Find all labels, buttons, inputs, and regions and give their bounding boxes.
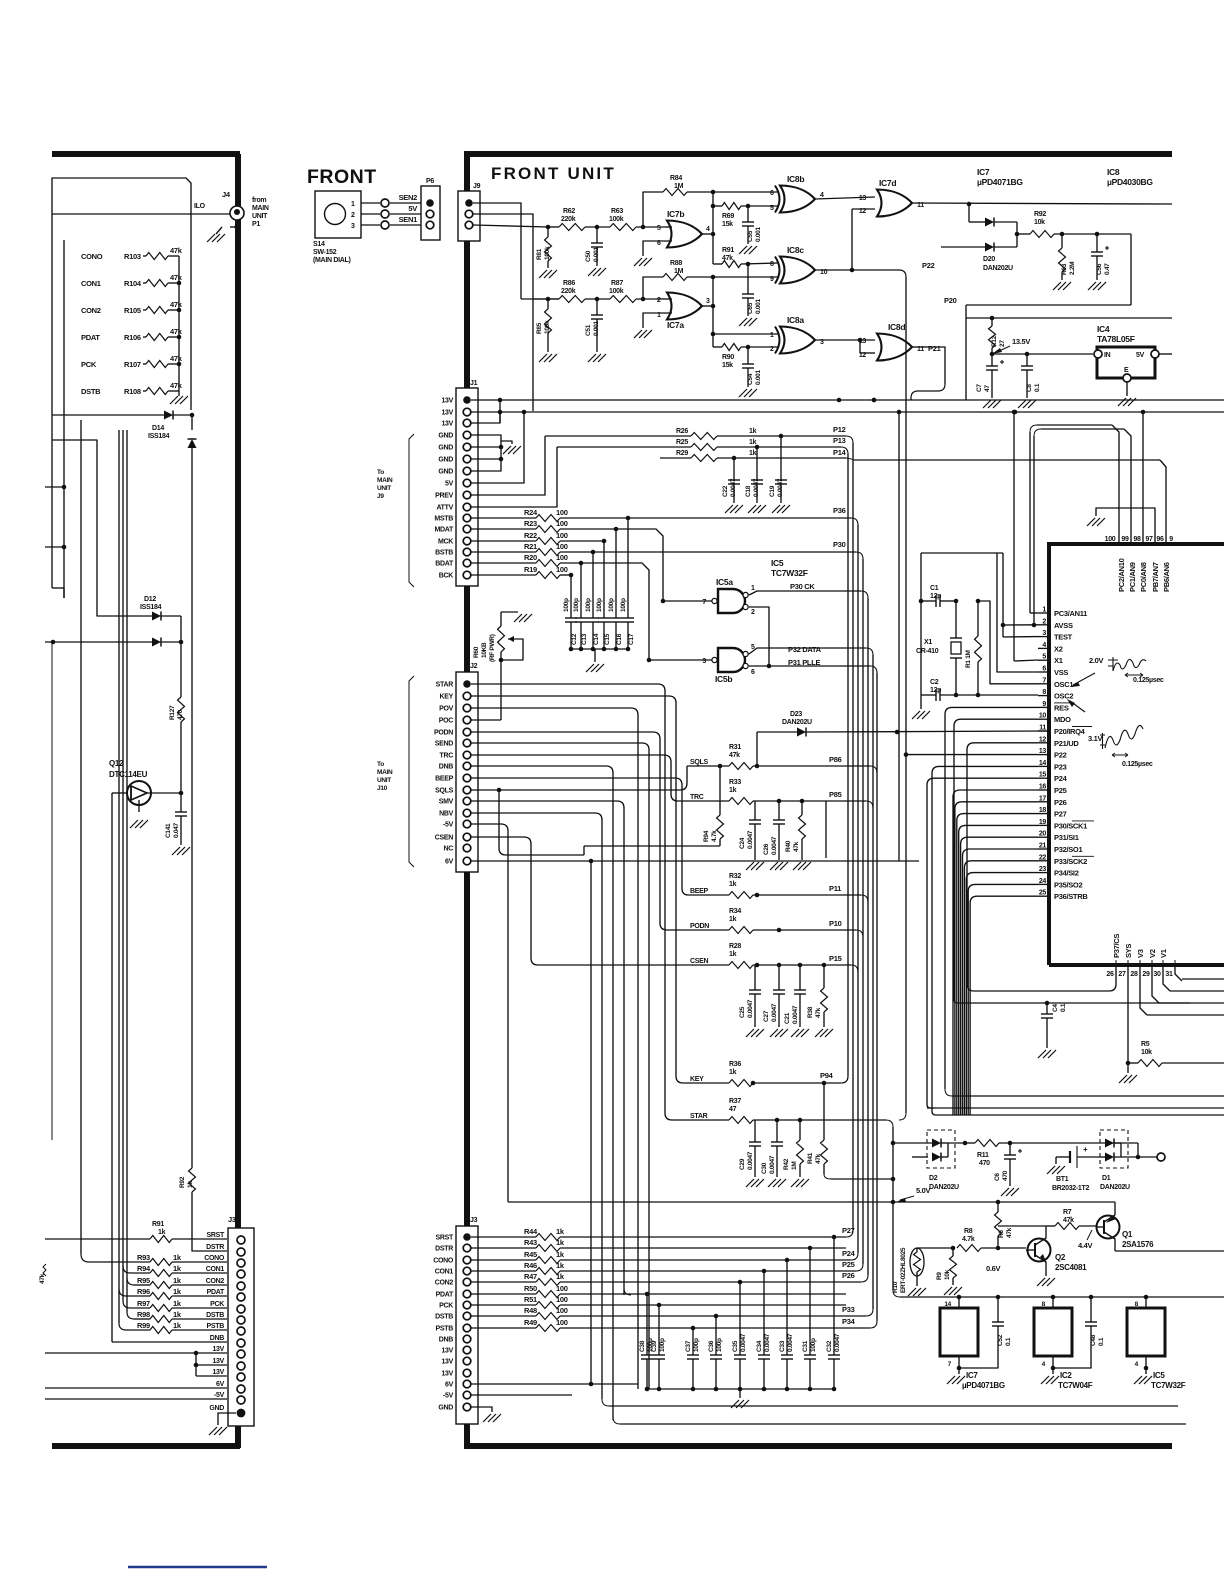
svg-text:C37: C37 (685, 1340, 692, 1352)
svg-text:1k: 1k (556, 1227, 565, 1236)
svg-text:6: 6 (770, 190, 774, 197)
node R104 junction (177, 281, 182, 286)
svg-text:C32: C32 (826, 1340, 833, 1352)
pin U1 2 AVSS (1038, 624, 1049, 626)
wire 13V rows (190, 1352, 227, 1354)
wire pin22 stair (964, 861, 1038, 1115)
svg-text:0.0047: 0.0047 (730, 478, 737, 497)
wire P31 corner (870, 666, 877, 673)
svg-text:IC8d: IC8d (888, 322, 905, 332)
svg-text:R12: R12 (991, 335, 998, 347)
pin U1 bottom ticks (1115, 960, 1117, 970)
svg-text:R127: R127 (169, 705, 176, 720)
svg-text:R95: R95 (137, 1276, 150, 1285)
svg-text:µPD4071BG: µPD4071BG (962, 1381, 1005, 1390)
svg-text:SEN2: SEN2 (399, 193, 418, 202)
svg-text:MSTB: MSTB (434, 516, 453, 523)
svg-text:GND: GND (438, 457, 453, 464)
capacitor C32 (833, 1237, 835, 1355)
diode D2 box (927, 1130, 955, 1168)
svg-text:E: E (1124, 367, 1129, 374)
svg-text:PCK: PCK (439, 1303, 453, 1310)
svg-text:P37/CS: P37/CS (1112, 934, 1121, 958)
svg-text:CON2: CON2 (435, 1280, 454, 1287)
ground J3 gnd pin (471, 1407, 492, 1412)
svg-text:J3: J3 (228, 1215, 236, 1224)
svg-text:R87: R87 (611, 280, 623, 287)
wire bus D (862, 559, 864, 1264)
svg-text:DAN202U: DAN202U (983, 265, 1013, 272)
svg-text:1k: 1k (158, 1229, 166, 1236)
svg-text:6V: 6V (445, 1382, 454, 1389)
node d12 left (51, 640, 56, 645)
diode D2b (912, 1156, 928, 1158)
svg-text:R20: R20 (524, 553, 537, 562)
wire D12 upper (52, 440, 152, 616)
node D14 junction (190, 413, 195, 418)
svg-text:100p: 100p (573, 598, 580, 612)
svg-text:POV: POV (439, 706, 454, 713)
pin U1 17 P26 (1038, 801, 1049, 803)
ground cap bank (586, 664, 594, 672)
svg-text:C26: C26 (763, 843, 770, 855)
svg-text:C141: C141 (165, 823, 172, 838)
svg-text:DNB: DNB (210, 1335, 225, 1342)
svg-text:13V: 13V (441, 1348, 453, 1355)
capacitor C50 (596, 227, 598, 243)
svg-text:P31 PLLE: P31 PLLE (788, 658, 820, 667)
wire bus B (847, 454, 849, 1076)
resistor R92 left (191, 1160, 193, 1168)
wire x613 end (613, 1417, 620, 1424)
svg-text:from: from (252, 197, 266, 204)
svg-text:7: 7 (702, 599, 706, 606)
svg-text:PC3/AN11: PC3/AN11 (1054, 609, 1087, 618)
svg-text:29: 29 (1142, 971, 1150, 978)
svg-text:47k: 47k (815, 1007, 822, 1018)
svg-text:C29: C29 (739, 1158, 746, 1170)
svg-text:-5V: -5V (443, 1393, 454, 1400)
svg-text:4: 4 (706, 226, 710, 233)
svg-text:13V: 13V (441, 410, 453, 417)
svg-text:0.0047: 0.0047 (747, 1151, 754, 1170)
pin U1 3 TEST (1038, 636, 1049, 638)
svg-text:5: 5 (657, 225, 661, 232)
wire 13.5V rail (966, 317, 1172, 319)
svg-text:0.0047: 0.0047 (792, 1005, 799, 1024)
wire pin16 stair (953, 790, 1038, 1115)
svg-text:PODN: PODN (690, 923, 709, 930)
svg-text:0.001: 0.001 (755, 299, 762, 314)
wire J2 -5V (471, 824, 508, 1202)
connector J2 box (456, 672, 478, 872)
svg-text:ISS184: ISS184 (140, 604, 162, 611)
ic IC2 power box (1052, 1297, 1054, 1308)
svg-text:µPD4071BG: µPD4071BG (977, 177, 1023, 187)
svg-text:D2: D2 (929, 1175, 938, 1182)
svg-text:47: 47 (729, 1106, 737, 1113)
wire C2 left gnd (920, 601, 922, 695)
svg-text:R88: R88 (670, 260, 682, 267)
capacitor C39 (658, 1305, 660, 1355)
wire pin15 route (927, 778, 1038, 1108)
capacitor C14 (592, 614, 594, 618)
svg-text:P34: P34 (842, 1317, 856, 1326)
wire ILO row (52, 213, 230, 215)
svg-text:R91: R91 (152, 1221, 164, 1228)
wire 5V rail bottom (893, 1290, 900, 1297)
svg-text:PC2/AN10: PC2/AN10 (1117, 558, 1126, 592)
svg-text:R23: R23 (524, 519, 537, 528)
svg-text:47k: 47k (170, 300, 183, 309)
svg-text:Q2: Q2 (1055, 1253, 1066, 1262)
wire J9 pin1 (473, 203, 521, 299)
svg-text:100p: 100p (659, 1338, 666, 1352)
svg-text:P25: P25 (1054, 786, 1067, 795)
svg-text:FRONT: FRONT (307, 166, 377, 188)
svg-text:P36: P36 (833, 506, 846, 515)
svg-text:R50: R50 (524, 1284, 537, 1293)
svg-text:R37: R37 (729, 1098, 741, 1105)
svg-text:1: 1 (351, 201, 355, 208)
svg-text:UNIT: UNIT (377, 485, 391, 492)
svg-text:100k: 100k (544, 320, 551, 334)
svg-text:GND: GND (438, 1405, 453, 1412)
svg-text:10KB: 10KB (481, 642, 488, 658)
svg-text:C31: C31 (802, 1340, 809, 1352)
svg-text:R105: R105 (124, 306, 141, 315)
svg-text:PDAT: PDAT (207, 1289, 225, 1296)
node R106 junction (177, 335, 182, 340)
wire J2 SEND (471, 743, 649, 1389)
svg-text:R94: R94 (137, 1264, 151, 1273)
resistor R12 (991, 318, 993, 326)
pin U1 top ticks (1118, 534, 1120, 544)
capacitor C18 (756, 447, 758, 480)
wire DNB row (112, 1341, 227, 1343)
svg-text:SEND: SEND (435, 741, 453, 748)
diode D12b (152, 638, 161, 647)
svg-text:P21: P21 (928, 344, 941, 353)
svg-text:AVSS: AVSS (1054, 621, 1073, 630)
capacitor C16 (615, 614, 617, 618)
svg-text:IC7d: IC7d (879, 178, 896, 188)
svg-text:J3: J3 (470, 1217, 478, 1224)
wire bus C (857, 525, 859, 1253)
svg-text:2: 2 (770, 346, 774, 353)
svg-text:10k: 10k (1034, 219, 1045, 226)
svg-text:DNB: DNB (439, 764, 454, 771)
pin U1 24 P35/SO2 (1038, 883, 1049, 885)
capacitor C55 (747, 206, 749, 222)
svg-text:PCK: PCK (81, 360, 97, 369)
svg-text:µPD4030BG: µPD4030BG (1107, 177, 1153, 187)
svg-text:TRC: TRC (690, 794, 704, 801)
pin U1 18 P27 (1038, 813, 1049, 815)
svg-text:J2: J2 (470, 663, 478, 670)
svg-text:C27: C27 (763, 1010, 770, 1022)
svg-text:IC8b: IC8b (787, 174, 804, 184)
svg-text:R1 1M: R1 1M (965, 650, 972, 668)
arrow to OSC1 (1073, 673, 1095, 685)
op-amp IC7b (667, 221, 702, 248)
pin U1 10 MDO (1038, 718, 1049, 720)
resistor R6 (997, 1202, 999, 1212)
pin U1 23 P34/SI2 (1038, 872, 1049, 874)
svg-text:+: + (1083, 1145, 1088, 1154)
svg-text:CSEN: CSEN (690, 958, 708, 965)
wire long 1202 row (508, 1201, 893, 1203)
connector J4 (230, 206, 244, 220)
svg-text:R11: R11 (977, 1152, 989, 1159)
svg-text:0.0047: 0.0047 (787, 1333, 794, 1352)
border left-section right vertical (235, 154, 241, 1448)
svg-text:TC7W04F: TC7W04F (1058, 1381, 1093, 1390)
wire pin30 V1 (1163, 965, 1170, 991)
svg-text:C25: C25 (739, 1006, 746, 1018)
connector J3 left box (228, 1228, 254, 1426)
svg-text:R62: R62 (563, 208, 575, 215)
svg-text:R86: R86 (563, 280, 575, 287)
capacitor C35 (739, 1282, 741, 1355)
pin U1 21 P32/SO1 (1038, 848, 1049, 850)
node D12 junction (179, 640, 184, 645)
wire x899 vertical (898, 412, 900, 861)
wire pin14 route (932, 766, 1038, 1115)
wire J2 CSEN (471, 837, 695, 965)
svg-text:J10: J10 (377, 785, 388, 792)
svg-text:0.1: 0.1 (1005, 1337, 1012, 1346)
wire row1 filter (548, 226, 559, 228)
capacitor C37 (692, 1328, 694, 1355)
svg-text:SQLS: SQLS (435, 788, 453, 795)
svg-text:C38: C38 (639, 1340, 646, 1352)
svg-text:47k: 47k (1006, 1227, 1013, 1238)
svg-text:R48: R48 (524, 1306, 537, 1315)
svg-text:R42: R42 (783, 1158, 790, 1170)
svg-text:J9: J9 (377, 493, 384, 500)
node C51 top (595, 297, 600, 302)
svg-text:15k: 15k (722, 362, 733, 369)
svg-text:2SC4081: 2SC4081 (1055, 1263, 1087, 1272)
wire BDAT right (581, 563, 649, 660)
svg-text:GND: GND (438, 433, 453, 440)
wire ladder bundle up (118, 430, 120, 1323)
svg-text:2SA1576: 2SA1576 (1122, 1240, 1154, 1249)
svg-text:R99: R99 (137, 1321, 150, 1330)
wire J2 SMV (471, 801, 624, 1295)
wire P85 vert (825, 801, 827, 858)
svg-text:0.001: 0.001 (593, 321, 600, 336)
svg-text:C18: C18 (745, 485, 752, 497)
svg-text:47k: 47k (815, 1153, 822, 1164)
svg-text:26: 26 (1106, 971, 1114, 978)
wire x874 node (872, 398, 877, 403)
svg-text:UNIT: UNIT (252, 213, 268, 220)
svg-text:P86: P86 (829, 755, 842, 764)
svg-text:C34: C34 (756, 1340, 763, 1352)
svg-text:R103: R103 (124, 252, 141, 261)
svg-text:BT1: BT1 (1056, 1176, 1069, 1183)
svg-text:9: 9 (1169, 536, 1173, 543)
svg-text:SEN1: SEN1 (399, 215, 418, 224)
svg-text:R91: R91 (722, 247, 734, 254)
svg-text:0.125µsec: 0.125µsec (1133, 677, 1164, 684)
op-amp IC7d (877, 190, 912, 217)
resistor R81 (546, 225, 551, 230)
svg-text:13V: 13V (441, 1371, 453, 1378)
svg-text:2: 2 (1042, 618, 1046, 625)
svg-text:1k: 1k (556, 1250, 565, 1259)
svg-text:DSTR: DSTR (435, 1246, 453, 1253)
svg-text:3: 3 (706, 298, 710, 305)
pin U1 22 P33/SCK2 (1038, 860, 1049, 862)
wire pin18 stair (957, 814, 1038, 1115)
wire MDO route (954, 719, 1038, 1003)
svg-text:-5V: -5V (214, 1392, 225, 1399)
svg-text:2.2M: 2.2M (1069, 262, 1076, 275)
svg-text:28: 28 (1130, 971, 1138, 978)
wire P94 corner (841, 1076, 848, 1083)
svg-text:0.001: 0.001 (755, 227, 762, 242)
svg-text:1k: 1k (749, 450, 757, 457)
svg-text:V1: V1 (1159, 949, 1168, 958)
svg-text:5V: 5V (1136, 352, 1145, 359)
ic IC7 power box (958, 1297, 960, 1308)
wire cap bank bus (571, 648, 628, 650)
svg-text:IN: IN (1104, 352, 1111, 359)
border main bottom bar (464, 1443, 1172, 1449)
svg-text:13V: 13V (212, 1358, 224, 1365)
svg-text:P13: P13 (833, 436, 846, 445)
svg-text:MDO: MDO (1054, 715, 1071, 724)
svg-text:CON1: CON1 (435, 1269, 454, 1276)
pin U1 7 OSC1 (1038, 683, 1049, 685)
svg-text:0.0047: 0.0047 (764, 1333, 771, 1352)
svg-text:1k: 1k (729, 787, 737, 794)
wire x624 bottom (624, 1288, 631, 1295)
wire P30 corner (856, 552, 863, 559)
node stub y487 (45, 486, 64, 488)
transistor Q1 2SA1576 (1097, 1216, 1120, 1239)
wire pin28 V3 (1140, 965, 1147, 1015)
svg-text:1k: 1k (749, 428, 757, 435)
wire osc1 link (978, 601, 1038, 684)
svg-text:12: 12 (859, 208, 867, 215)
svg-text:R7: R7 (1063, 1209, 1072, 1216)
wire D12 lower row (45, 641, 152, 643)
svg-text:PC1/AN9: PC1/AN9 (1128, 562, 1137, 592)
svg-text:1k: 1k (173, 1310, 182, 1319)
connector J3 box (456, 1226, 478, 1424)
wire J2 DNB (471, 766, 613, 1420)
svg-text:47k: 47k (170, 327, 183, 336)
svg-text:15k: 15k (722, 221, 733, 228)
wire D1 out (1137, 1143, 1139, 1157)
waveform osc1 (1108, 657, 1118, 671)
svg-text:MAIN: MAIN (252, 205, 269, 212)
svg-text:R38: R38 (807, 1006, 814, 1018)
svg-text:C55: C55 (747, 230, 754, 242)
capacitor C17 (627, 614, 629, 618)
diode D12a (152, 612, 161, 621)
transistor Q12 DTC114EU (127, 781, 151, 805)
svg-text:47k: 47k (170, 246, 183, 255)
pin U1 6 VSS (1038, 671, 1049, 673)
svg-text:R21: R21 (524, 542, 537, 551)
wire J2 KEY (471, 696, 695, 1083)
wire P36 corner (851, 518, 858, 525)
svg-text:1k: 1k (173, 1276, 182, 1285)
svg-text:1k: 1k (173, 1321, 182, 1330)
svg-text:R47: R47 (524, 1272, 537, 1281)
capacitor C13 (580, 614, 582, 618)
svg-text:R108: R108 (124, 387, 141, 396)
diode D14 (164, 411, 173, 420)
capacitor C54 (747, 347, 749, 364)
svg-text:SRST: SRST (436, 1235, 454, 1242)
svg-text:R92: R92 (1034, 211, 1046, 218)
svg-text:P23: P23 (1054, 762, 1067, 771)
resistor R1 (977, 601, 979, 636)
diode D14b vertical (191, 415, 193, 430)
wire 13V row3 (471, 400, 500, 423)
pin U1 25 P36/STRB (1038, 895, 1049, 897)
diode D20a (985, 218, 994, 227)
svg-text:1: 1 (770, 332, 774, 339)
wire pin27 SYS (1127, 965, 1129, 1063)
svg-text:P30/SCK1: P30/SCK1 (1054, 821, 1087, 830)
wire IC8c out P22 (815, 269, 899, 271)
svg-text:C17: C17 (628, 633, 635, 645)
svg-text:P14: P14 (833, 448, 847, 457)
svg-text:PSTB: PSTB (436, 1326, 454, 1333)
svg-text:P22: P22 (922, 261, 935, 270)
svg-text:P94: P94 (820, 1071, 834, 1080)
capacitor C22 (733, 458, 735, 480)
wire J2 PODN (471, 732, 695, 930)
svg-text:P12: P12 (833, 425, 846, 434)
svg-text:C13: C13 (581, 633, 588, 645)
svg-text:R93: R93 (137, 1253, 150, 1262)
svg-text:27: 27 (1118, 971, 1126, 978)
thermistor R10 (910, 1248, 924, 1276)
svg-text:C33: C33 (779, 1340, 786, 1352)
svg-text:ATTV: ATTV (436, 505, 453, 512)
capacitor C48 (1090, 1297, 1092, 1322)
wire left vline a (51, 183, 53, 588)
svg-text:0.1: 0.1 (1034, 383, 1041, 392)
svg-text:R6: R6 (998, 1230, 1005, 1238)
svg-text:100: 100 (1105, 536, 1116, 543)
svg-text:25: 25 (1039, 890, 1047, 897)
svg-text:P35/SO2: P35/SO2 (1054, 880, 1082, 889)
svg-text:2: 2 (751, 609, 755, 616)
svg-text:P20/IRQ4: P20/IRQ4 (1054, 727, 1086, 736)
svg-text:8: 8 (770, 261, 774, 268)
pin U1 11 P20/IRQ4 (1038, 730, 1049, 732)
svg-text:R84: R84 (670, 175, 682, 182)
svg-text:R33: R33 (729, 779, 741, 786)
svg-text:0.0047: 0.0047 (747, 830, 754, 849)
svg-text:100k: 100k (544, 246, 551, 260)
wire -5V row left (45, 1398, 227, 1400)
svg-text:C1: C1 (930, 585, 939, 592)
wire pin23 stair (966, 873, 1038, 1115)
capacitor C25 (754, 965, 756, 990)
wire P12 corner (846, 436, 853, 443)
svg-text:X1: X1 (924, 639, 932, 646)
